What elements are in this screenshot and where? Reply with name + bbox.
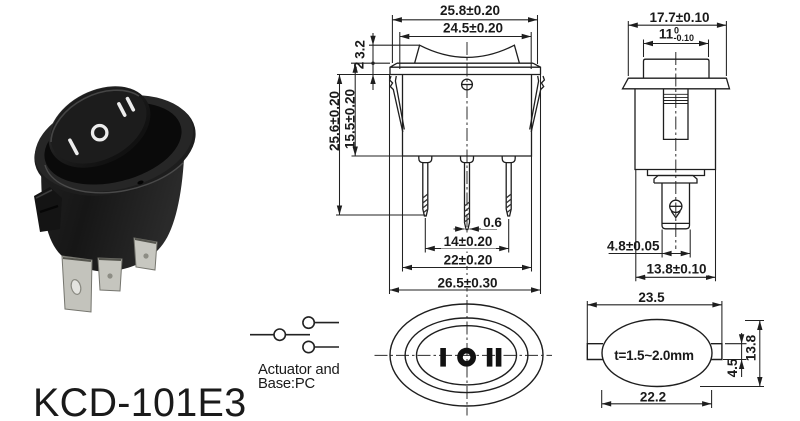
wire: position II lead bbox=[314, 346, 339, 348]
photo: rocker switch product image bbox=[24, 70, 205, 312]
svg-text:Base:PC: Base:PC bbox=[258, 376, 316, 392]
switch body front bbox=[403, 75, 532, 157]
dim 25.8 lines bbox=[392, 15, 537, 64]
terminal left bbox=[62, 256, 92, 312]
terminal middle bbox=[98, 258, 122, 291]
rocker actuator bbox=[35, 70, 164, 184]
dim 24.5 lines bbox=[400, 32, 531, 69]
cutout oval bbox=[602, 320, 712, 387]
svg-text:14±0.20: 14±0.20 bbox=[444, 234, 493, 249]
bezel ellipse bbox=[405, 318, 528, 393]
dim text 26.5 bbox=[436, 275, 499, 288]
terminal 1 shoulder bbox=[419, 156, 432, 163]
centerline horizontal top view bbox=[375, 354, 553, 356]
terminal 1 pin bbox=[423, 163, 428, 216]
base plate bbox=[648, 170, 705, 176]
left spring clip bbox=[390, 76, 405, 132]
svg-text:26.5±0.30: 26.5±0.30 bbox=[438, 276, 498, 291]
mark II top view bbox=[487, 348, 493, 367]
cutout dimensions bbox=[587, 301, 764, 408]
dim 14 lines bbox=[425, 218, 508, 253]
dim 13.8 side lines bbox=[636, 170, 716, 282]
flange ellipse bbox=[390, 304, 543, 406]
dim 4.5 lines bbox=[723, 333, 747, 377]
mark I bbox=[70, 140, 77, 153]
rocker profile bbox=[415, 45, 520, 63]
svg-text:24.5±0.20: 24.5±0.20 bbox=[443, 21, 503, 36]
switch body bbox=[41, 116, 184, 272]
arrows cutout bbox=[587, 302, 597, 307]
svg-text:11: 11 bbox=[659, 27, 674, 42]
wire: pole arm bbox=[285, 334, 310, 336]
contact: common pole circle bbox=[274, 329, 285, 340]
svg-text:25.6±0.20: 25.6±0.20 bbox=[327, 91, 342, 151]
svg-text:13.8±0.10: 13.8±0.10 bbox=[647, 262, 707, 277]
dim text 13.8 side bbox=[645, 263, 708, 276]
svg-text:25.8±0.20: 25.8±0.20 bbox=[440, 3, 500, 18]
wire: common lead bbox=[250, 334, 274, 336]
mark O bbox=[93, 126, 107, 140]
dim text 14 bbox=[441, 236, 496, 249]
mark O top view bbox=[460, 351, 473, 364]
svg-text:-0.10: -0.10 bbox=[674, 33, 695, 43]
flange side bbox=[623, 78, 730, 89]
contact: position II circle bbox=[303, 341, 314, 352]
rocker ellipse bbox=[417, 326, 517, 385]
terminal right bbox=[134, 238, 157, 270]
centerline side bbox=[675, 52, 677, 249]
left mounting clip bbox=[34, 187, 62, 232]
flange front bbox=[390, 63, 541, 74]
dim 13.8 cutout lines bbox=[700, 321, 764, 387]
panel cutout drawing bbox=[587, 320, 722, 387]
terminal 3 shoulder bbox=[502, 156, 515, 163]
svg-text:4.8±0.05: 4.8±0.05 bbox=[607, 239, 660, 254]
dim 22 lines bbox=[403, 156, 532, 272]
screw boss circle bbox=[462, 79, 473, 90]
front view dimensions bbox=[336, 15, 541, 294]
contact: position I circle bbox=[303, 317, 314, 328]
dim 26.5 lines bbox=[390, 75, 541, 295]
arrows front bbox=[392, 17, 402, 22]
svg-text:23.5: 23.5 bbox=[638, 290, 665, 305]
wire: position I lead bbox=[314, 322, 339, 324]
side view drawing bbox=[623, 52, 730, 249]
top view drawing bbox=[375, 304, 553, 406]
terminal collar bbox=[654, 176, 697, 184]
svg-text:22.2: 22.2 bbox=[640, 390, 666, 405]
right spring clip bbox=[530, 76, 545, 132]
mark II bbox=[119, 104, 125, 115]
mark I top view bbox=[440, 348, 446, 367]
rivet keyhole bbox=[670, 200, 682, 212]
arrows side bbox=[628, 23, 638, 28]
left notch tab bbox=[587, 344, 603, 360]
dim 4.8 lines bbox=[609, 230, 691, 258]
circuit schematic: SPDT switch bbox=[250, 317, 339, 353]
rocker knob side bbox=[644, 59, 710, 78]
dim 22.2 lines bbox=[602, 390, 712, 408]
svg-text:KCD-101E3: KCD-101E3 bbox=[33, 381, 246, 421]
svg-text:15.5±0.20: 15.5±0.20 bbox=[343, 89, 358, 149]
svg-text:t=1.5~2.0mm: t=1.5~2.0mm bbox=[614, 348, 694, 363]
terminal 3 pin bbox=[506, 163, 511, 216]
centerline front bbox=[466, 42, 468, 416]
bezel flange bbox=[24, 81, 205, 210]
svg-text:22±0.20: 22±0.20 bbox=[444, 253, 493, 268]
body side bbox=[635, 89, 716, 170]
front view drawing bbox=[390, 42, 545, 416]
terminal tab bbox=[662, 183, 690, 229]
dim 17.7 lines bbox=[628, 21, 726, 76]
svg-text:4.5: 4.5 bbox=[725, 358, 740, 377]
terminal 2 shoulder bbox=[461, 156, 474, 163]
dim 0.6 leaders bbox=[454, 228, 498, 230]
dim text 0.6 bbox=[481, 216, 504, 229]
dim 3.2 / 2 chain line bbox=[337, 33, 420, 90]
svg-text:3.2: 3.2 bbox=[353, 40, 368, 59]
dim 25.6 line bbox=[336, 75, 425, 216]
side view dimensions bbox=[609, 21, 727, 281]
svg-text:0.6: 0.6 bbox=[483, 215, 502, 230]
svg-text:2: 2 bbox=[352, 62, 367, 70]
terminal 2 pin bbox=[465, 163, 470, 230]
body vent hole bbox=[137, 180, 144, 185]
right notch tab bbox=[711, 344, 722, 360]
dim text 22 bbox=[440, 253, 498, 266]
actuator post bbox=[664, 89, 689, 140]
svg-text:13.8: 13.8 bbox=[744, 334, 759, 361]
dim 23.5 lines bbox=[587, 301, 722, 344]
dim 11 lines bbox=[644, 40, 709, 58]
svg-text:17.7±0.10: 17.7±0.10 bbox=[650, 10, 710, 25]
dim 15.5 line bbox=[352, 63, 403, 156]
